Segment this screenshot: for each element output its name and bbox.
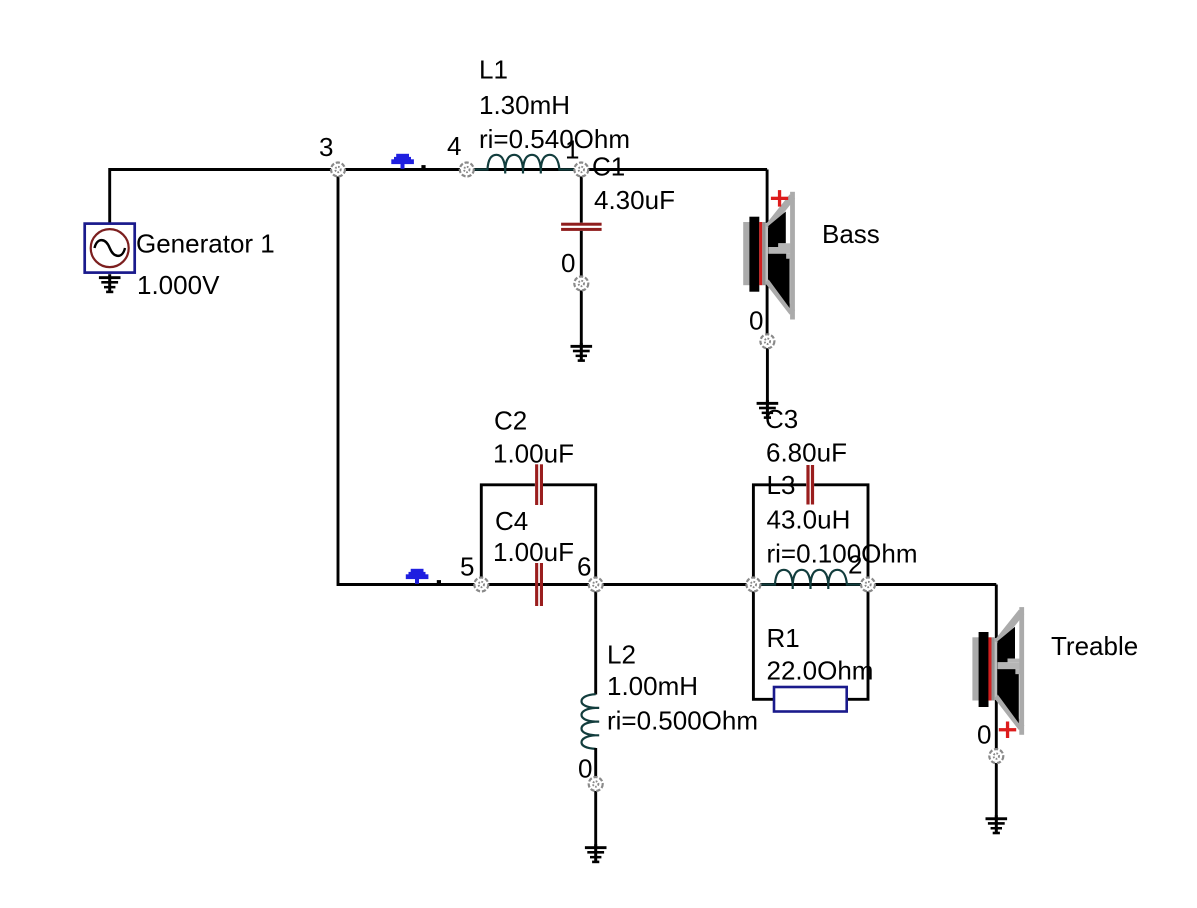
capacitor C3 — [806, 465, 814, 505]
svg-text:Treable: Treable — [1051, 631, 1138, 661]
probe tick 1 — [421, 165, 425, 168]
node 5 — [474, 578, 488, 592]
svg-text:1.00uF: 1.00uF — [493, 439, 574, 469]
svg-text:1.00uF: 1.00uF — [493, 537, 574, 567]
wire node 0 to ground — [580, 284, 583, 347]
svg-text:L1: L1 — [479, 55, 508, 85]
node junction left of L3 — [746, 578, 760, 592]
generator G1 symbol — [85, 224, 135, 273]
capacitor C4 — [535, 563, 543, 606]
svg-text:4: 4 — [447, 131, 461, 161]
svg-text:6: 6 — [577, 552, 591, 582]
node 0 (Treable) — [989, 749, 1003, 763]
current probe arrow 2 — [406, 569, 429, 584]
probe tick 2 — [437, 580, 441, 583]
svg-text:C3: C3 — [765, 404, 798, 434]
speaker Bass — [743, 192, 795, 320]
node 3 — [331, 163, 345, 177]
svg-text:1.00mH: 1.00mH — [607, 671, 698, 701]
capacitor C2 — [535, 464, 543, 505]
svg-text:6.80uF: 6.80uF — [766, 438, 847, 468]
wire node5 to C4 — [481, 583, 535, 586]
ground (Treable) — [986, 815, 1008, 834]
svg-text:0: 0 — [578, 754, 592, 784]
node 4 — [460, 163, 474, 177]
wire node1 down to C1 — [580, 170, 583, 223]
svg-text:2: 2 — [848, 550, 862, 580]
inductor L1 coil — [467, 155, 582, 174]
svg-text:4.30uF: 4.30uF — [594, 185, 675, 215]
svg-text:5: 5 — [460, 552, 474, 582]
node 0 (Bass) — [760, 334, 774, 348]
wire bass vertical — [766, 170, 769, 342]
svg-text:R1: R1 — [767, 623, 800, 653]
node 0 (under C1) — [574, 277, 588, 291]
L3/R1/C3 box wires: top branch — [753, 485, 806, 585]
svg-text:Bass: Bass — [822, 219, 880, 249]
wire C4 to node 6 — [543, 583, 596, 586]
wire top rail from generator to bass corner — [110, 170, 767, 224]
speaker Treable — [972, 607, 1024, 735]
svg-text:C1: C1 — [592, 152, 625, 182]
resistor R1 body — [774, 687, 847, 712]
ground (C1) — [571, 343, 593, 362]
svg-text:22.0Ohm: 22.0Ohm — [767, 656, 874, 686]
inductor L2 coil — [582, 694, 600, 749]
wire node6 down to L2 — [594, 585, 597, 695]
svg-text:0: 0 — [749, 306, 763, 336]
svg-text:C4: C4 — [495, 506, 528, 536]
wire treable vertical — [995, 585, 998, 757]
ground (L2) — [585, 844, 607, 863]
node 6 — [589, 578, 603, 592]
svg-text:Generator 1: Generator 1 — [136, 229, 275, 259]
node 1 — [574, 163, 588, 177]
svg-text:0: 0 — [977, 720, 991, 750]
node 0 (L2) — [589, 777, 603, 791]
svg-text:L2: L2 — [607, 640, 636, 670]
svg-text:ri=0.540Ohm: ri=0.540Ohm — [479, 124, 630, 154]
svg-text:43.0uH: 43.0uH — [767, 505, 851, 535]
svg-text:C2: C2 — [494, 406, 527, 436]
plus sign (Bass) — [771, 190, 788, 207]
svg-text:0: 0 — [561, 248, 575, 278]
inductor L3 coil — [753, 570, 868, 589]
current probe arrow 1 — [391, 154, 414, 169]
capacitor C1 — [561, 223, 602, 231]
plus sign (Treable) — [999, 722, 1016, 739]
L3/R1 box wires: bottom branch — [753, 585, 773, 700]
svg-text:ri=0.500Ohm: ri=0.500Ohm — [607, 706, 758, 736]
svg-text:ri=0.100Ohm: ri=0.100Ohm — [767, 539, 918, 569]
svg-text:1.30mH: 1.30mH — [479, 90, 570, 120]
svg-text:3: 3 — [319, 132, 333, 162]
svg-text:L3: L3 — [767, 470, 796, 500]
wire node 0 to ground (L2) — [594, 784, 597, 847]
svg-text:1: 1 — [565, 135, 579, 165]
svg-text:1.000V: 1.000V — [137, 270, 220, 300]
wire treable node to ground — [995, 756, 998, 818]
ground (Bass) — [757, 400, 779, 419]
wire left rail from node 3 down and lower rail to treable corner — [338, 170, 996, 585]
wire bass node to ground — [766, 341, 769, 403]
node 2 — [861, 578, 875, 592]
wire C1 to node 0 — [580, 231, 583, 284]
ground (generator) — [99, 274, 121, 293]
C2/C4 loop wires — [481, 485, 535, 585]
wire L2 to node 0 — [594, 748, 597, 784]
